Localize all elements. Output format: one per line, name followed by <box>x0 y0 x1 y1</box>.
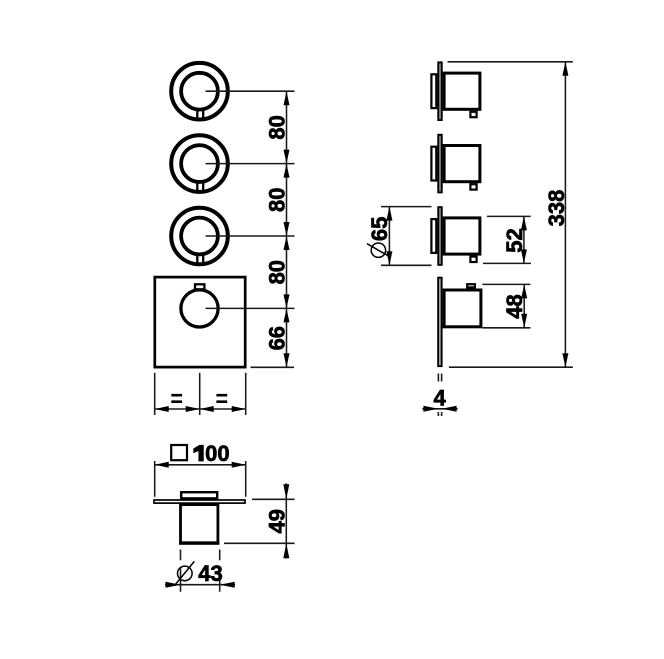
leader line row 2 <box>206 163 295 165</box>
valve body <box>181 505 218 544</box>
knob 4 index tab <box>467 284 475 287</box>
dia65 arrow down <box>386 251 392 265</box>
square-symbol of plate size label <box>171 445 187 460</box>
dia65 arrow up <box>386 207 392 221</box>
4 arrow pointing left <box>442 406 457 412</box>
49 extension bottom <box>224 542 295 544</box>
100 extension line left <box>154 461 156 497</box>
knob 2 index tab <box>470 184 476 189</box>
52 arrow up <box>521 216 527 230</box>
centreline dashed left <box>180 550 182 592</box>
49 arrow down <box>283 484 289 499</box>
48 dimension line <box>523 284 525 327</box>
knob 4 circle <box>181 290 218 327</box>
100 extension line right <box>245 461 247 497</box>
SIDE VIEW <box>367 62 573 416</box>
338 arrow up <box>562 62 568 76</box>
svg-text:52: 52 <box>502 228 527 252</box>
chain arrow down at plate bottom <box>284 353 290 367</box>
svg-text:338: 338 <box>544 190 569 227</box>
chain arrows at row2 <box>284 150 290 178</box>
knob 1 recess block <box>431 74 436 108</box>
dia43 arrow pointing right <box>166 582 181 588</box>
equal-spacing extension line right <box>245 373 247 415</box>
leader line plate bottom <box>251 366 295 368</box>
centreline dashed right <box>219 550 221 592</box>
knob 3 inner circle <box>181 218 218 255</box>
4 arrow pointing right <box>423 406 438 412</box>
338 top leader <box>448 61 573 63</box>
svg-text:80: 80 <box>265 260 290 284</box>
knob 4 wall plate edge <box>438 278 441 366</box>
dia65 extension top <box>381 206 432 208</box>
338 dimension line <box>564 62 566 367</box>
FRONT VIEW <box>155 63 295 415</box>
52 arrow down <box>521 249 527 263</box>
equals symbol left <box>171 395 182 402</box>
square escutcheon plate <box>155 277 245 367</box>
leader line row 1 <box>206 90 295 92</box>
escutcheon step <box>181 492 217 498</box>
equal-spacing extension line left <box>154 373 156 415</box>
knob 4 body <box>444 290 481 327</box>
svg-text:66: 66 <box>265 326 290 350</box>
knob 2 inner circle <box>181 145 218 182</box>
vertical chain dimension line <box>286 91 288 367</box>
52 extension top <box>487 215 531 217</box>
leader line row 3 <box>206 235 295 237</box>
equal-spacing arrows left half <box>155 406 200 412</box>
valve body bottom edge <box>179 541 219 544</box>
49 extension top <box>252 498 295 500</box>
svg-text:4: 4 <box>433 386 446 411</box>
48 arrow down <box>521 314 527 328</box>
49 dimension line <box>285 483 287 558</box>
4 extension marks upper <box>438 374 441 382</box>
338 arrow down <box>562 353 568 367</box>
BOTTOM VIEW <box>154 441 295 592</box>
equals symbol right <box>216 395 227 402</box>
knob 3 escutcheon bar <box>438 207 441 265</box>
equal-spacing extension line centre <box>199 373 201 415</box>
knob 1 outer ring <box>171 63 228 120</box>
svg-text:43: 43 <box>198 561 222 586</box>
equal-spacing dimension line <box>155 408 246 410</box>
knob 2 escutcheon bar <box>438 135 441 193</box>
52 extension bottom <box>483 262 531 264</box>
knob 3 body <box>444 218 480 254</box>
338 bottom leader <box>449 366 573 368</box>
dia43 arrow pointing left <box>220 582 235 588</box>
svg-text:80: 80 <box>265 115 290 139</box>
knob 1 escutcheon bar <box>438 62 441 120</box>
knob 4 notch box <box>195 284 204 289</box>
knob 2 notch walls <box>197 182 203 192</box>
100 arrow left <box>155 462 169 468</box>
49 arrow up <box>283 543 289 558</box>
48 extension top <box>482 283 530 285</box>
dia65 dimension line <box>388 207 390 266</box>
leader line row 4 <box>206 307 295 309</box>
knob 2 outer ring <box>171 135 228 192</box>
chain arrows at row4 <box>284 294 290 322</box>
dia65 extension bottom <box>381 264 432 266</box>
chain arrow up at row1 <box>284 91 290 105</box>
svg-text:49: 49 <box>264 509 289 533</box>
52 dimension line <box>523 216 525 263</box>
svg-text:65: 65 <box>367 217 392 241</box>
svg-text:80: 80 <box>265 188 290 212</box>
label dia symbol bottom <box>174 561 194 585</box>
48 extension bottom <box>482 327 530 329</box>
knob 2 body <box>444 146 480 182</box>
knob 2 recess block <box>431 147 436 181</box>
knob 3 index tab <box>470 257 476 262</box>
100 dimension line <box>155 464 246 466</box>
knob 1 inner circle <box>181 73 218 110</box>
knob 3 notch walls <box>197 254 203 264</box>
label 100 digit 1 <box>194 445 204 461</box>
4 dimension line <box>422 408 457 410</box>
4 extension marks lower <box>438 412 441 416</box>
chain arrows at row3 <box>284 222 290 250</box>
knob 1 index tab <box>470 112 476 117</box>
equal-spacing arrows right half <box>200 406 246 412</box>
48 arrow up <box>521 284 527 298</box>
label dia symbol side <box>367 243 390 257</box>
wall flange edge <box>154 500 245 503</box>
100 arrow right <box>232 462 246 468</box>
knob 1 body <box>444 73 480 109</box>
knob 1 notch walls <box>197 109 203 119</box>
knob 3 outer ring <box>171 208 228 265</box>
dia43 dimension line <box>165 584 235 586</box>
svg-text:00: 00 <box>205 441 229 466</box>
knob 3 recess block <box>431 219 436 253</box>
svg-text:48: 48 <box>502 294 527 318</box>
